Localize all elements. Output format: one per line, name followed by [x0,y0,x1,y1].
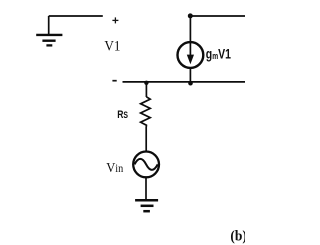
svg-text:V1: V1 [104,38,120,55]
current source U1 (gmV1 dependent source) [178,42,204,68]
svg-text:gmV1: gmV1 [206,46,231,62]
svg-text:RS: RS [117,109,128,121]
wire (Rs to Vin source) [145,127,147,152]
node C (top-right junction) [188,13,193,18]
ground G2 (bottom) [135,200,158,211]
node A (junction Rs / middle rail) [144,81,148,85]
- label (V1 negative terminal) [112,80,116,82]
wire (top node down to current source) [189,16,191,44]
resistor Rs [141,97,151,127]
source Vin (sine source) [133,152,159,178]
+ label (V1 positive terminal) [112,17,118,23]
svg-text:Vin: Vin [106,159,124,175]
wire (top-right rail) [190,15,245,17]
wire (Vin to bottom ground) [145,178,147,201]
svg-text:(b): (b) [230,228,245,245]
node B (current source / middle rail junction) [188,81,193,86]
wire (current source to middle rail) [189,68,191,84]
wire (node A down to Rs) [145,83,147,97]
ground G1 (top-left) [36,16,62,45]
wire (ground to V1 + terminal) [49,15,103,17]
wire (middle rail) [123,81,246,83]
